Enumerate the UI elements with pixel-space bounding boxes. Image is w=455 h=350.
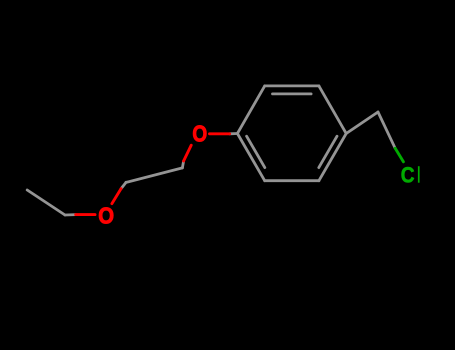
svg-text:C: C (401, 163, 415, 188)
wire gray part of O2-C9 bond (65, 213, 76, 216)
wire V_R-C11 bond (346, 112, 378, 134)
wire ring bond BR to BL (265, 179, 319, 182)
svg-text:O: O (98, 202, 114, 228)
wire gray part of O1-ring bond (230, 132, 238, 135)
svg-text:O: O (192, 120, 207, 146)
wire inner double bond top (273, 93, 312, 96)
wire ring bond V_L to TL (237, 86, 264, 134)
wire gray part of C11-Cl bond (378, 112, 395, 148)
wire gray part of C8-O2 bond (121, 182, 126, 188)
wire ring bond BL to V_L (237, 134, 264, 181)
wire inner double bond lower-left (247, 136, 265, 167)
wire red half of O1-C7 bond (184, 145, 192, 161)
wire ring bond V_R to BR (319, 134, 346, 181)
wire red half of O1-ring bond (210, 132, 230, 135)
wire red half of C8-O2 bond (112, 189, 121, 204)
benzene ring outer bonds (27, 86, 395, 215)
wire gray part of O1-C7 bond (182, 161, 183, 168)
wire inner double bond lower-right (319, 136, 337, 167)
wire C9-C10 ethyl bond (27, 190, 65, 215)
wire ring bond TR to V_R (319, 86, 346, 134)
wire C7-C8 bond (126, 168, 182, 183)
wire green half of C11-Cl bond (395, 148, 403, 162)
wire ring bond TL to TR (265, 85, 319, 88)
wire red half of O2-C9 bond (76, 213, 95, 216)
